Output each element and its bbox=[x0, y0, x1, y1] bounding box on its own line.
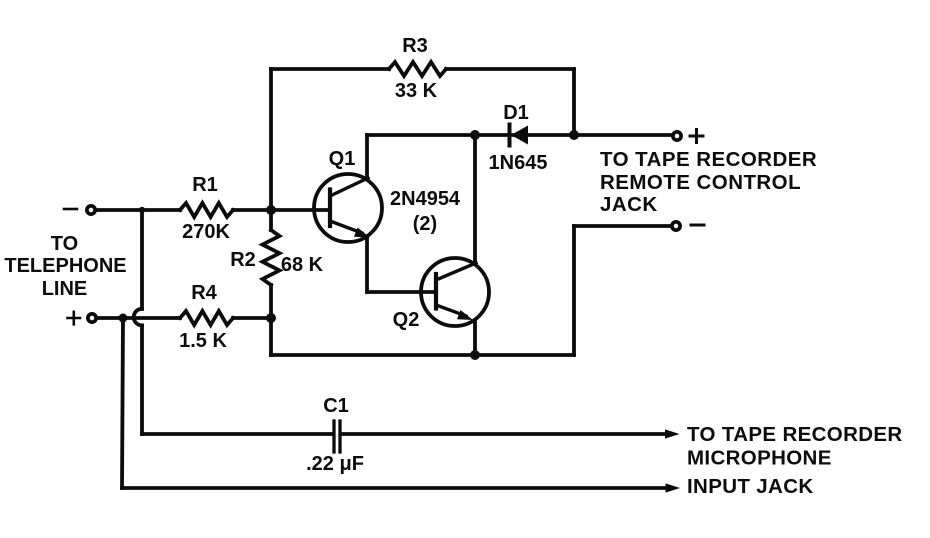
wire Q1 to Q2 base link bbox=[367, 290, 434, 294]
svg-text:Q2: Q2 bbox=[393, 309, 420, 331]
svg-text:R1: R1 bbox=[192, 174, 218, 196]
svg-text:REMOTE CONTROL: REMOTE CONTROL bbox=[600, 171, 801, 194]
svg-text:.22 μF: .22 μF bbox=[306, 453, 364, 475]
wire telephone minus line bbox=[95, 208, 330, 212]
node junction x142 y210 bbox=[139, 207, 145, 213]
transistor Q2 bbox=[421, 258, 489, 326]
wire top rail left bbox=[271, 67, 389, 71]
svg-text:JACK: JACK bbox=[600, 193, 658, 216]
node junction x475 y135 bbox=[470, 130, 480, 140]
transistor Q1 bbox=[314, 174, 382, 242]
terminal telephone minus bbox=[87, 206, 95, 214]
capacitor C1 bbox=[334, 421, 340, 452]
wire minus jack vertical x574 bbox=[572, 226, 576, 355]
wire bottom rail bbox=[271, 353, 574, 357]
wire R3 right vertical x574 bbox=[572, 69, 576, 135]
terminal tape plus bbox=[673, 132, 681, 140]
svg-text:1N645: 1N645 bbox=[489, 152, 548, 174]
label TO TAPE RECORDER MICROPHONE INPUT JACK bbox=[687, 423, 903, 498]
plus sign tape bbox=[690, 130, 703, 143]
wire R2 top stub bbox=[269, 210, 273, 230]
wire left branch lower x142 bbox=[140, 325, 144, 434]
wire Q1 collector bbox=[365, 135, 369, 179]
resistor R3 bbox=[389, 62, 446, 76]
svg-text:R3: R3 bbox=[402, 35, 428, 57]
node junction x271 y318 bbox=[266, 313, 276, 323]
resistor R4 bbox=[180, 311, 233, 325]
svg-text:TO TAPE RECORDER: TO TAPE RECORDER bbox=[600, 148, 817, 171]
arrow microphone line bbox=[665, 429, 680, 438]
svg-text:270K: 270K bbox=[182, 221, 230, 243]
terminal tape minus bbox=[672, 222, 680, 230]
wire left branch upper x142 bbox=[140, 210, 144, 309]
node junction x123 y318 bbox=[119, 314, 128, 323]
wire input jack line bbox=[122, 486, 666, 490]
wire R2 bottom stub bbox=[269, 285, 273, 318]
wire left vertical x271 bbox=[269, 69, 273, 210]
resistor R1 bbox=[180, 203, 233, 217]
svg-text:C1: C1 bbox=[323, 395, 349, 417]
wire Q2 emitter lead bbox=[473, 322, 477, 355]
minus sign telephone bbox=[64, 208, 77, 211]
svg-text:TO TAPE RECORDER: TO TAPE RECORDER bbox=[687, 423, 903, 446]
wire top rail right bbox=[446, 67, 574, 71]
wire bottom left vertical bbox=[269, 318, 273, 355]
wire capacitor line bbox=[142, 432, 666, 436]
svg-text:D1: D1 bbox=[503, 102, 529, 124]
diode D1 bbox=[510, 125, 529, 146]
svg-text:1.5 K: 1.5 K bbox=[179, 330, 227, 352]
svg-text:68 K: 68 K bbox=[281, 254, 324, 276]
label TO TAPE RECORDER REMOTE CONTROL JACK bbox=[600, 148, 817, 216]
wire Q2 collector bbox=[473, 135, 477, 263]
plus sign telephone bbox=[68, 312, 81, 325]
node junction x574 y135 bbox=[569, 130, 579, 140]
resistor R2 bbox=[263, 230, 280, 285]
arrow input jack line bbox=[666, 483, 681, 492]
svg-text:TO: TO bbox=[51, 233, 78, 255]
svg-text:33 K: 33 K bbox=[395, 80, 438, 102]
wire crossover hop bbox=[134, 309, 142, 326]
svg-text:R4: R4 bbox=[191, 282, 217, 304]
node junction x271 y210 bbox=[266, 205, 276, 215]
node junction x475 y355 bbox=[470, 350, 480, 360]
svg-text:(2): (2) bbox=[413, 213, 437, 235]
svg-text:R2: R2 bbox=[230, 249, 256, 271]
svg-text:TELEPHONE: TELEPHONE bbox=[4, 255, 126, 277]
wire plus branch vertical x122 bbox=[122, 318, 123, 488]
wire telephone plus line bbox=[96, 316, 271, 320]
terminal telephone plus bbox=[88, 314, 96, 322]
wire minus jack line bbox=[574, 224, 671, 228]
svg-text:LINE: LINE bbox=[42, 278, 88, 300]
transistor Q1 emitter arrow bbox=[354, 228, 370, 238]
svg-text:Q1: Q1 bbox=[329, 148, 356, 170]
minus sign tape bbox=[691, 224, 704, 227]
svg-text:MICROPHONE: MICROPHONE bbox=[687, 447, 832, 470]
transistor Q2 emitter arrow bbox=[457, 310, 473, 320]
wire collector rail y135 bbox=[367, 133, 672, 137]
svg-text:2N4954: 2N4954 bbox=[390, 188, 461, 210]
label TO TELEPHONE LINE bbox=[4, 233, 126, 300]
wire Q1 emitter lead bbox=[365, 237, 369, 292]
svg-text:INPUT JACK: INPUT JACK bbox=[687, 475, 814, 498]
